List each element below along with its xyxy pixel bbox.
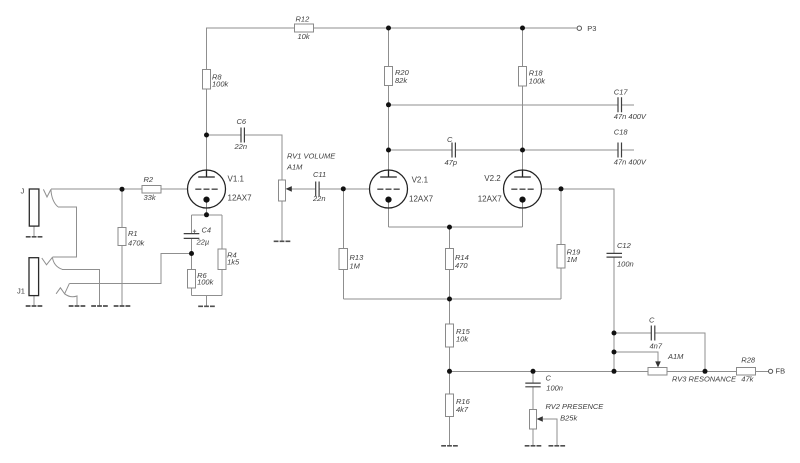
svg-text:22n: 22n	[312, 194, 326, 203]
tube V2.2 envelope	[504, 170, 542, 208]
capacitor C11	[316, 182, 319, 197]
svg-text:R2: R2	[144, 175, 154, 184]
jack J body	[29, 189, 39, 226]
node R2 / R1	[120, 187, 125, 192]
svg-text:100n: 100n	[546, 384, 563, 393]
svg-text:B25k: B25k	[560, 414, 578, 423]
svg-text:P3: P3	[587, 24, 596, 33]
wire top rail right: R12 right to P3	[314, 27, 577, 29]
svg-text:4k7: 4k7	[456, 405, 469, 414]
capacitor C18	[618, 143, 622, 158]
resistor R19	[557, 245, 565, 269]
ground under jack J	[26, 236, 43, 238]
capacitor C 100n presence	[525, 383, 540, 387]
svg-text:100k: 100k	[529, 77, 547, 86]
potentiometer RV1 wiper arrow	[286, 186, 292, 192]
svg-text:C: C	[546, 373, 552, 382]
node C11 / R13	[341, 186, 346, 191]
ground under cathode network	[198, 305, 215, 307]
terminal P3	[577, 26, 581, 30]
wire top rail left: R8 top to R12 left	[207, 28, 295, 70]
svg-text:82k: 82k	[395, 76, 408, 85]
svg-text:V2.2: V2.2	[484, 174, 501, 183]
potentiometer RV3	[648, 368, 667, 376]
wire 4n7 left	[614, 332, 651, 334]
svg-text:1M: 1M	[567, 255, 578, 264]
ground under jack J1	[26, 305, 43, 307]
svg-text:R1: R1	[128, 229, 138, 238]
svg-text:C11: C11	[313, 170, 326, 179]
node V2.2 grid / R19	[559, 186, 564, 191]
jack J1 tip contact	[42, 257, 53, 265]
wire cathode rail V2	[389, 226, 523, 228]
jack J NC contact curve	[51, 189, 58, 207]
tube V1.1 plate	[198, 170, 215, 177]
svg-text:100k: 100k	[212, 80, 230, 89]
ground under J1 NC wire	[91, 305, 108, 307]
svg-text:10k: 10k	[456, 335, 469, 344]
wire cathode network ground stem	[206, 296, 208, 306]
wire R20 bottom to V2.1 plate	[388, 86, 390, 171]
svg-text:22n: 22n	[234, 142, 248, 151]
wire R20 top	[388, 28, 390, 67]
resistor R15	[445, 324, 453, 347]
wire R19 bottom lead	[560, 268, 562, 299]
node C12 / RV3 wiper	[612, 350, 617, 355]
resistor R20	[384, 67, 392, 86]
wire J1 ring contact to C4 bottom node	[69, 254, 191, 284]
wire R18 top	[522, 28, 524, 67]
node C12 / rail B	[612, 369, 617, 374]
wire J NC contact to J1 tip	[52, 207, 76, 257]
svg-text:470k: 470k	[128, 239, 146, 248]
svg-text:J1: J1	[17, 287, 25, 296]
capacitor C17	[618, 97, 622, 112]
wire C11 right to V2.1 grid	[319, 188, 370, 190]
node V1.1 cathode network top	[204, 212, 209, 217]
capacitor C12	[607, 253, 623, 257]
wire R13 top lead	[342, 189, 344, 249]
resistor R28	[736, 367, 755, 375]
svg-text:470: 470	[455, 261, 468, 270]
node C12 / 4n7	[612, 331, 617, 336]
wire 4n7 right down to rail B	[655, 333, 705, 371]
wire V2.2 cathode down	[522, 201, 524, 227]
node rail B / presence cap	[531, 369, 536, 374]
wire jack J1 sleeve stem	[33, 296, 35, 306]
capacitor C 47p	[452, 143, 455, 158]
wire presence cap top	[532, 371, 534, 383]
svg-text:RV1 VOLUME: RV1 VOLUME	[287, 151, 336, 160]
wire R14 top lead	[449, 227, 451, 248]
svg-text:C17: C17	[614, 88, 629, 97]
svg-text:33k: 33k	[144, 193, 157, 202]
potentiometer RV2 wiper arrow	[537, 416, 543, 422]
wire R2 right to V1.1 grid	[161, 188, 188, 190]
node rail B / R15 R16	[447, 369, 452, 374]
svg-text:4n7: 4n7	[650, 342, 663, 351]
jack J1 body	[29, 258, 39, 296]
wire jack J tip to R2 left	[51, 188, 142, 190]
ground under RV2 wiper	[549, 445, 566, 447]
svg-text:47k: 47k	[741, 374, 754, 383]
wire J1 NC contact to ground	[62, 269, 99, 305]
svg-text:12AX7: 12AX7	[478, 194, 503, 203]
tube V2.1 cathode	[385, 197, 391, 203]
wire RV1 wiper to C11 left	[292, 188, 316, 190]
resistor R1	[118, 228, 126, 246]
svg-text:C6: C6	[237, 117, 247, 126]
potentiometer RV1	[278, 180, 285, 201]
jack J1 NC contact curve	[52, 257, 62, 269]
svg-text:47p: 47p	[445, 158, 458, 167]
wire rail B right of RV3	[667, 370, 736, 372]
svg-text:47n 400V: 47n 400V	[614, 158, 647, 167]
svg-text:12AX7: 12AX7	[409, 194, 434, 203]
resistor R14	[445, 248, 453, 269]
ground under R1	[114, 305, 131, 307]
wire RV3 wiper feed	[614, 352, 658, 362]
wire R1 bottom to ground	[121, 246, 123, 306]
svg-text:C: C	[649, 316, 655, 325]
wire R13 bottom lead	[342, 269, 344, 299]
capacitor C4 plus sign	[193, 230, 196, 234]
wire RV2 bottom to ground	[532, 429, 534, 445]
terminal FB	[769, 369, 773, 373]
wire RV1 bottom to ground	[281, 201, 283, 241]
svg-text:C12: C12	[617, 241, 632, 250]
svg-text:V2.1: V2.1	[412, 175, 429, 184]
wire 47p row left	[389, 149, 453, 151]
svg-text:22µ: 22µ	[196, 238, 210, 247]
node R18 top rail	[520, 26, 525, 31]
ground under J1 ring contact	[69, 305, 86, 307]
node V2.1 plate / 47p row	[386, 148, 391, 153]
resistor R13	[339, 248, 347, 269]
tube V1.1 envelope	[188, 170, 226, 208]
wire C4 bottom to R6 top	[191, 239, 193, 270]
wire presence cap bottom to RV2	[532, 387, 534, 410]
node 4n7 / RV3 / R28	[703, 369, 708, 374]
svg-text:47n 400V: 47n 400V	[614, 112, 647, 121]
node V2.1 plate / C17 row	[386, 102, 391, 107]
node rail A / R15	[447, 297, 452, 302]
potentiometer RV2	[529, 409, 536, 429]
svg-text:FB: FB	[776, 367, 786, 376]
wire R6 bottom	[191, 288, 193, 296]
svg-text:R28: R28	[741, 356, 756, 365]
tube V2.1 grid	[377, 188, 399, 190]
ground under RV2	[525, 445, 542, 447]
svg-text:RV3 RESONANCE: RV3 RESONANCE	[672, 374, 737, 383]
potentiometer RV3 wiper arrow	[655, 361, 661, 367]
jack J1 ring contact	[56, 283, 77, 305]
wire cathode node horizontal	[192, 214, 223, 216]
wire C18 stub	[622, 149, 635, 151]
wire V2.1 cathode down	[388, 201, 390, 227]
wire R1 top lead	[121, 189, 123, 228]
svg-text:A1M: A1M	[286, 163, 303, 172]
svg-text:10k: 10k	[298, 32, 311, 41]
wire R16 bottom to ground	[449, 417, 451, 446]
wire right branch to R4 top	[221, 215, 223, 249]
svg-text:100k: 100k	[197, 278, 215, 287]
wire rail B to R16	[449, 371, 451, 394]
resistor R6	[187, 269, 195, 288]
wire left branch to C4 top	[191, 215, 193, 234]
wire C6 right to RV1 top	[244, 135, 282, 180]
wire R28 to FB	[756, 370, 769, 372]
wire 47p to C18	[455, 149, 618, 151]
resistor R12	[294, 24, 313, 32]
wire C17 stub	[622, 104, 635, 106]
wire rail B left	[450, 370, 649, 372]
svg-text:V1.1: V1.1	[228, 175, 245, 184]
wire cathode network bottom bar	[192, 295, 223, 297]
svg-text:C18: C18	[614, 128, 629, 137]
wire node plate to C6 left	[207, 134, 242, 136]
node V2.2 plate / 47p row	[520, 148, 525, 153]
wire V1.1 cathode to node	[206, 201, 208, 215]
svg-text:R12: R12	[296, 15, 311, 24]
resistor R16	[445, 394, 453, 417]
wire jack J sleeve stem	[33, 226, 35, 236]
wire R15 bottom to rail B	[449, 347, 451, 371]
tube V1.1 grid	[195, 188, 217, 190]
tube V2.2 grid	[511, 188, 533, 190]
ground under R16	[441, 445, 458, 447]
svg-text:C4: C4	[202, 226, 212, 235]
tube V2.2 cathode	[519, 197, 525, 203]
svg-text:A1M: A1M	[667, 352, 684, 361]
tube V2.1 envelope	[370, 170, 408, 208]
resistor R2	[142, 185, 161, 192]
svg-text:1k5: 1k5	[227, 258, 240, 267]
tube V2.2 plate	[514, 170, 531, 177]
wire rail A to R15	[449, 299, 451, 324]
capacitor C4 electrolytic	[184, 234, 200, 239]
svg-text:1M: 1M	[350, 261, 361, 270]
wire C12 bottom to rail B	[613, 258, 615, 372]
svg-text:J: J	[21, 186, 25, 195]
resistor R4	[218, 249, 226, 269]
jack J tip contact	[43, 189, 51, 197]
capacitor C6	[241, 128, 244, 143]
wire rail A	[343, 298, 561, 300]
node V1.1 plate / C6	[204, 133, 209, 138]
resistor R8	[202, 70, 210, 90]
capacitor C 4n7	[651, 326, 655, 341]
svg-text:RV2 PRESENCE: RV2 PRESENCE	[546, 402, 605, 411]
wire C17 row left	[389, 104, 619, 106]
svg-text:100n: 100n	[617, 259, 634, 268]
resistor R18	[518, 67, 526, 87]
wire RV2 wiper to ground	[543, 419, 557, 445]
node cathode rail / R14	[447, 225, 452, 230]
ground under RV1	[274, 240, 291, 242]
wire V2.2 grid to C12	[541, 189, 614, 253]
node R20 top rail	[386, 26, 391, 31]
wire R4 bottom	[221, 269, 223, 295]
wire R19 top lead	[560, 189, 562, 245]
wire R8 bottom to V1.1 plate	[206, 89, 208, 170]
node C4 bottom / R6 / low input	[189, 251, 194, 256]
svg-text:C: C	[447, 135, 453, 144]
tube V1.1 cathode	[203, 197, 209, 203]
tube V2.1 plate	[380, 170, 397, 177]
wire R14 bottom lead	[449, 269, 451, 299]
wire R18 bottom to V2.2 plate	[522, 86, 524, 170]
svg-text:12AX7: 12AX7	[228, 193, 253, 202]
